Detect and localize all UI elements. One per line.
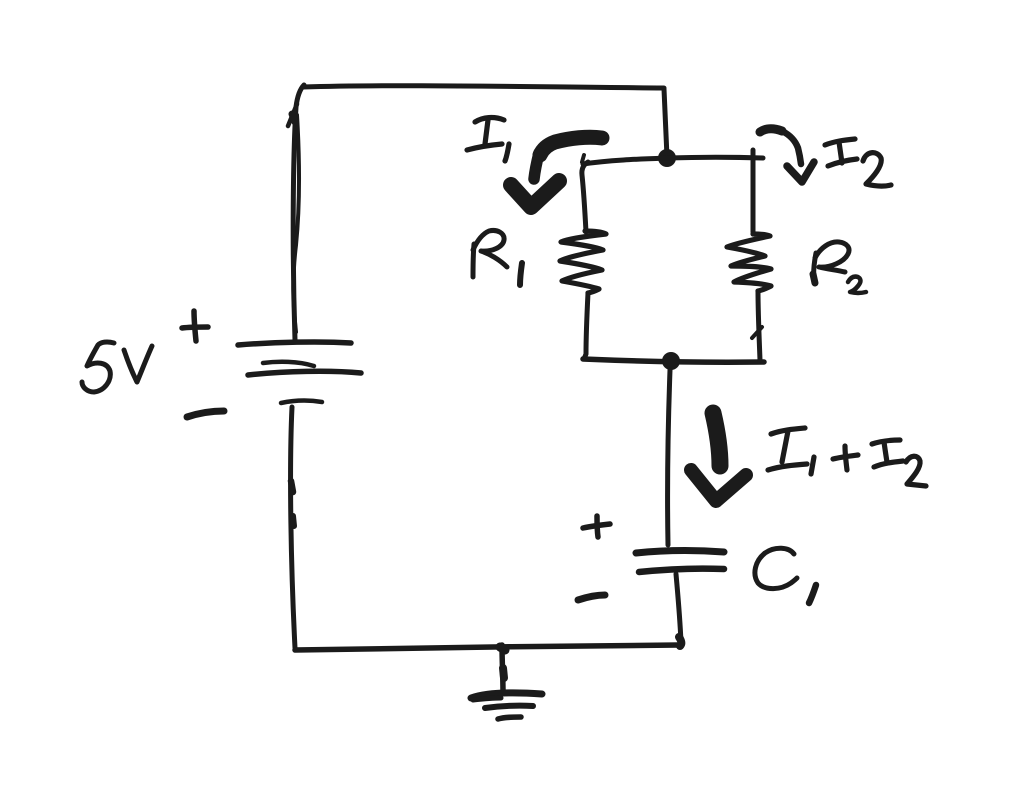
node A (top junction dot) — [658, 149, 676, 167]
battery V1 (5V) plates — [238, 342, 361, 403]
label I1 — [467, 118, 509, 161]
wire: bottom edge of parallel pair — [583, 359, 764, 362]
wire: capacitor to bottom return — [676, 574, 681, 646]
label − (capacitor) — [578, 595, 605, 600]
resistor R1 zigzag — [560, 231, 606, 293]
label C1 — [755, 548, 816, 603]
wire: drop from top wire to node A — [664, 89, 667, 157]
wire: left branch upper — [582, 155, 588, 232]
wire: right branch lower — [752, 291, 762, 360]
label − (battery) — [187, 411, 224, 417]
resistor R2 zigzag — [727, 234, 771, 291]
label + (capacitor) — [583, 516, 610, 537]
label 5V — [82, 342, 152, 392]
current arrow I1 (thick curved) — [511, 137, 602, 207]
label + (battery) — [182, 311, 208, 341]
wire: left vertical lead (overdrawn strokes) — [288, 85, 304, 340]
current arrow I2 (curved) — [760, 129, 814, 182]
wire: left branch lower — [584, 293, 588, 359]
ground — [471, 645, 542, 719]
current arrow I1+I2 (thick down) — [691, 413, 746, 501]
wire: battery bottom lead — [291, 407, 295, 648]
node B (bottom junction dot) — [662, 352, 680, 370]
wire: top edge of parallel pair — [583, 157, 763, 164]
wire: right branch upper — [751, 150, 756, 232]
wire: top horizontal from battery column to node column — [303, 86, 664, 88]
label I1+I2 — [768, 428, 926, 486]
wire: bottom return — [295, 645, 679, 650]
capacitor C1 plates — [636, 551, 724, 572]
label R2 — [813, 242, 866, 293]
wire: node B down to capacitor — [668, 370, 670, 545]
label I2 — [825, 139, 891, 186]
label R1 — [473, 230, 522, 285]
